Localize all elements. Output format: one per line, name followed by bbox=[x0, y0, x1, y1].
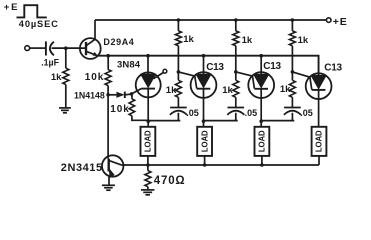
wire +E top rail bbox=[95, 19, 326, 21]
wire bus to R8 bbox=[147, 165, 149, 171]
svg-text:1k: 1k bbox=[166, 85, 177, 96]
transistor Q2 2N3415 bbox=[102, 155, 123, 176]
wire Q2 collector to bus bbox=[122, 164, 125, 166]
capacitor C3 .05 coupling bbox=[284, 107, 301, 109]
wire R7 to capacitor C3 bbox=[291, 97, 293, 107]
resistor R4 1k anode-divider upper bbox=[289, 31, 295, 46]
wire rail to R3 bbox=[235, 20, 237, 31]
junction bus-load3 bbox=[260, 163, 264, 167]
wire rail to R2 bbox=[177, 20, 179, 31]
wire Q5 anode bbox=[318, 56, 320, 76]
junction gate node 3 bbox=[291, 70, 295, 74]
junction Q3 cathode node bbox=[202, 119, 206, 123]
capacitor C2 .05 coupling bbox=[228, 107, 245, 109]
svg-text:470Ω: 470Ω bbox=[154, 175, 186, 187]
wire gate node 2 to Q4 gate bbox=[236, 72, 255, 89]
input terminal bbox=[25, 46, 30, 51]
wire anode bus from Q1 emitter bbox=[98, 56, 319, 73]
junction top rail node 1 bbox=[177, 18, 181, 22]
wire R5 to capacitor C1 bbox=[177, 97, 179, 107]
svg-text:.05: .05 bbox=[245, 108, 258, 118]
wire R9 to ground bbox=[65, 85, 67, 108]
wire C5 to node A (Q1 base) bbox=[52, 47, 86, 49]
svg-text:1N4148: 1N4148 bbox=[74, 90, 105, 100]
load box LOAD3 bbox=[255, 127, 270, 156]
junction bus-470 bbox=[146, 163, 150, 167]
wire R3 to gate node 2 (crosses anode bus) bbox=[235, 46, 237, 72]
wire LOAD4 to bottom bus bbox=[318, 156, 320, 165]
wire LOAD3 to bottom bus bbox=[261, 156, 263, 165]
terminal U1 anode-gate bbox=[163, 69, 167, 73]
svg-text:1k: 1k bbox=[298, 35, 309, 46]
ground 470Ω bbox=[141, 189, 155, 191]
svg-text:2N3415: 2N3415 bbox=[61, 162, 103, 174]
wire Q1 collector riser bbox=[94, 20, 96, 39]
junction gate node 1 bbox=[177, 70, 181, 74]
wire rail to R4 bbox=[291, 20, 293, 31]
svg-text:1k: 1k bbox=[183, 34, 194, 45]
transistor Q1 D29A4 bbox=[80, 38, 101, 59]
svg-text:LOAD: LOAD bbox=[200, 130, 209, 152]
wire Q3 anode bbox=[203, 56, 205, 74]
wire C1 to previous cathode bbox=[148, 113, 180, 121]
wire gate node 3 to Q5 gate bbox=[292, 72, 311, 90]
wire R8 to ground bbox=[147, 187, 149, 190]
ground Q2 emitter bbox=[102, 184, 115, 186]
svg-text:C13: C13 bbox=[263, 61, 281, 72]
junction top rail node 2 bbox=[234, 18, 238, 22]
wire Q4 cathode bbox=[260, 89, 262, 127]
thyristor Q4 C13 bbox=[248, 72, 274, 98]
svg-text:+E: +E bbox=[4, 2, 19, 13]
wire R6 to capacitor C2 bbox=[235, 97, 237, 107]
input pulse waveform 40 microsecond bbox=[17, 5, 47, 17]
svg-text:40µSEC: 40µSEC bbox=[19, 19, 59, 29]
load box LOAD4 bbox=[312, 127, 327, 156]
junction gate node 2 bbox=[234, 70, 238, 74]
terminal +E right bbox=[326, 18, 331, 23]
wire bottom bus bbox=[122, 164, 319, 166]
svg-text:C13: C13 bbox=[324, 62, 342, 73]
resistor R5 1k divider lower bbox=[175, 80, 181, 97]
svg-text:1k: 1k bbox=[242, 35, 253, 46]
svg-text:D29A4: D29A4 bbox=[103, 37, 134, 47]
svg-text:LOAD: LOAD bbox=[315, 130, 324, 152]
junction anode Q4 bbox=[259, 54, 263, 58]
junction Q4 cathode node bbox=[259, 119, 263, 123]
wire R11 to U1 cathode node bbox=[132, 116, 148, 121]
wire Q5 cathode bbox=[318, 90, 320, 127]
resistor R2 1k anode-divider upper bbox=[175, 31, 181, 46]
junction node B diode anode bbox=[106, 93, 110, 97]
resistor R7 1k divider lower bbox=[289, 80, 295, 97]
wire gate node 1 to Q3 gate bbox=[178, 72, 196, 89]
svg-text:LOAD: LOAD bbox=[258, 130, 267, 152]
wire node B down to Q2 base bbox=[107, 95, 109, 159]
svg-text:.1µF: .1µF bbox=[41, 57, 59, 67]
capacitor C1 .05 coupling bbox=[170, 107, 187, 109]
junction Q1 emitter / base chain bbox=[106, 54, 110, 58]
thyristor Q3 C13 bbox=[191, 72, 217, 98]
svg-text:.05: .05 bbox=[186, 108, 199, 118]
svg-text:10k: 10k bbox=[85, 72, 104, 83]
svg-text:+E: +E bbox=[333, 16, 348, 28]
wire R2 to gate node 1 (crosses anode bus) bbox=[177, 46, 179, 72]
wire node A down to R9 bbox=[65, 48, 67, 68]
junction U1 gate node bbox=[130, 92, 134, 96]
load box LOAD1 bbox=[141, 127, 156, 156]
svg-text:C13: C13 bbox=[206, 62, 224, 73]
wire Q3 cathode bbox=[203, 89, 205, 127]
wire LOAD2 to bottom bus bbox=[204, 156, 206, 165]
wire U1 gate node to R11 bbox=[131, 94, 133, 99]
junction bus-load2 bbox=[203, 163, 207, 167]
resistor R3 1k anode-divider upper bbox=[233, 31, 239, 46]
wire LOAD1 to bottom bus bbox=[147, 156, 149, 165]
wire U1 gate lead bbox=[132, 89, 142, 94]
svg-text:LOAD: LOAD bbox=[144, 130, 153, 152]
capacitor C5 .1µF input coupling bbox=[45, 41, 47, 55]
resistor R9 1k input bbox=[63, 68, 69, 84]
wire Q4 anode bbox=[260, 56, 262, 74]
diode D1 1N4148 bbox=[108, 94, 116, 96]
junction anode Q3 bbox=[202, 54, 206, 58]
svg-text:3N84: 3N84 bbox=[117, 60, 141, 71]
resistor R8 470Ω bbox=[145, 171, 151, 187]
svg-text:.05: .05 bbox=[300, 108, 313, 118]
wire C2 to previous cathode bbox=[204, 113, 238, 121]
junction anode U1 bbox=[146, 54, 150, 58]
wire R4 to gate node 3 (crosses anode bus) bbox=[291, 46, 293, 72]
resistor R10 10k bbox=[105, 70, 111, 86]
wire node to R10 10k bbox=[107, 56, 109, 70]
scs U1 3N84 bbox=[136, 72, 161, 97]
svg-text:1k: 1k bbox=[51, 72, 62, 83]
wire U1 anode bbox=[147, 56, 149, 74]
wire C3 to previous cathode bbox=[261, 113, 294, 121]
svg-text:1k: 1k bbox=[222, 85, 233, 96]
junction node A bbox=[64, 46, 68, 50]
resistor R11 10k gate bbox=[129, 99, 135, 116]
wire U1 cathode bbox=[147, 89, 149, 127]
thyristor Q5 C13 bbox=[306, 73, 332, 99]
svg-text:1k: 1k bbox=[280, 84, 291, 95]
wire gate node 3 to R7 bbox=[291, 72, 293, 80]
junction U1 cathode node bbox=[146, 119, 150, 123]
wire R10 to node B bbox=[107, 86, 109, 95]
wire input terminal to C5 bbox=[30, 47, 46, 49]
ground input bbox=[59, 107, 71, 109]
wire gate node 1 to R5 bbox=[177, 72, 179, 80]
resistor R6 1k divider lower bbox=[233, 80, 239, 97]
load box LOAD2 bbox=[197, 127, 212, 156]
wire gate node 2 to R6 bbox=[235, 72, 237, 80]
junction top rail node 3 bbox=[291, 18, 295, 22]
svg-text:10k: 10k bbox=[110, 104, 129, 115]
wire U1 anode-gate stub bbox=[154, 73, 164, 79]
